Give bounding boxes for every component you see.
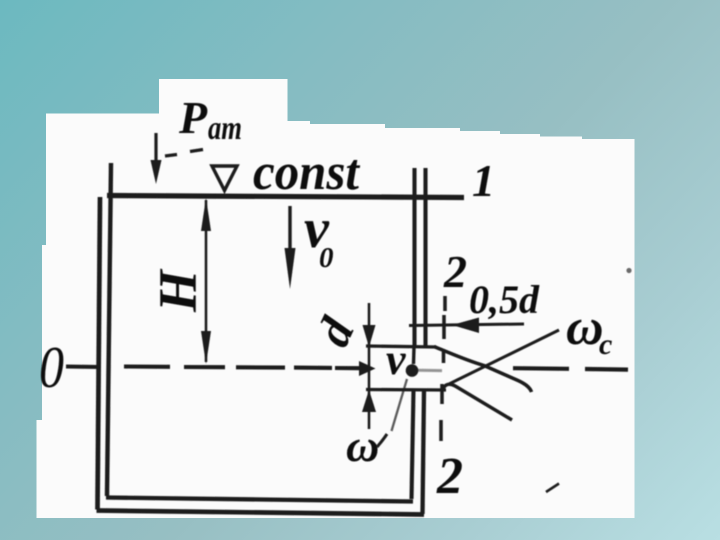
tank right inner wall upper — [412, 168, 416, 347]
datum solid segment left of wall — [66, 365, 100, 370]
omega leader line — [392, 379, 408, 431]
H dimension line — [205, 200, 208, 362]
jet bottom boundary — [443, 384, 512, 420]
stray dot right — [626, 268, 631, 273]
water-level marker (inverted triangle) — [212, 166, 237, 191]
svg-text:0,5d: 0,5d — [469, 277, 540, 322]
tank left outer wall — [98, 197, 101, 510]
scanned white figure background — [37, 79, 635, 518]
tank inner bottom — [106, 498, 413, 502]
d arrowhead up — [362, 390, 376, 412]
svg-text:0: 0 — [39, 334, 64, 400]
wall stub above dot — [412, 347, 416, 364]
svg-text:P: P — [178, 92, 208, 143]
svg-text:c: c — [599, 328, 612, 361]
faint centreline through orifice mouth — [418, 369, 442, 372]
tank right inner wall lower — [412, 390, 414, 499]
stray mark bottom right — [546, 484, 559, 493]
omega swash — [377, 434, 387, 447]
H arrowhead down — [201, 331, 211, 364]
node dot at orifice centre — [406, 364, 419, 377]
tank right outer wall lower — [423, 390, 425, 514]
svg-text:H: H — [148, 268, 208, 313]
centerline 0-0 dashes — [124, 367, 332, 368]
svg-text:ω: ω — [346, 420, 379, 471]
centerline dashes right of jet — [513, 368, 628, 369]
d arrowhead down — [363, 325, 376, 347]
orifice top edge extension — [366, 346, 436, 347]
tank left inner wall — [107, 163, 111, 496]
svg-text:v: v — [386, 335, 406, 384]
section line 2-2 (dashed vertical) — [441, 296, 445, 441]
label omega_c — [566, 299, 612, 361]
tank outer bottom — [97, 511, 425, 515]
jet top boundary — [434, 347, 532, 393]
tank right outer wall upper — [423, 168, 427, 347]
svg-text:0: 0 — [319, 242, 334, 274]
tank top water line — [107, 196, 464, 198]
v0 arrow (down) — [288, 206, 291, 252]
svg-text:const: const — [253, 144, 360, 201]
0,5d dimension line — [409, 324, 524, 326]
svg-text:1: 1 — [472, 155, 495, 206]
arrow P_am (down) — [154, 133, 157, 164]
orifice bottom edge extension — [366, 388, 446, 392]
label v0 — [304, 198, 334, 274]
leader line to contracted section — [449, 330, 559, 384]
svg-text:2: 2 — [436, 448, 463, 505]
dashes near P_am arrow — [165, 150, 203, 157]
label P_am — [178, 92, 242, 147]
svg-text:2: 2 — [443, 246, 467, 297]
centerline arrow (flow direction) — [335, 366, 360, 370]
svg-text:am: am — [208, 110, 242, 147]
d dimension line — [368, 303, 371, 429]
svg-text:ω: ω — [566, 299, 604, 356]
0,5d arrowhead (left) — [452, 318, 479, 334]
H arrowhead up — [201, 198, 211, 231]
